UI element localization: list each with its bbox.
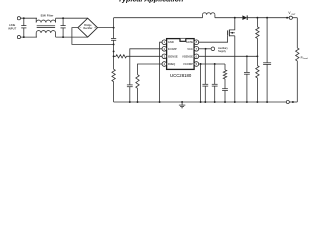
svg-text:Load: Load [303,58,307,60]
capacitor C2 (X-cap after EMI filter) [61,18,66,37]
wire: riser to boost rail [113,18,115,28]
svg-text:Rectifier: Rectifier [83,27,92,30]
node: C7 at rail [224,101,226,103]
wire GND pin to ground rail [160,42,162,102]
capacitor C8 (VSENSE filter) [244,56,250,102]
node: C8 at rail [246,101,248,103]
node: C5 at rail [204,101,206,103]
resistor R2 (ISENSE series) [116,55,127,58]
wire: load to return rail [296,61,298,102]
capacitor C9 (bulk output) [263,18,271,102]
wire: VCOMP left branch to rail [200,64,202,102]
wire: shunt to rail [113,82,115,102]
node: R6 at rail [256,101,258,103]
wire: diode to output node [247,17,289,19]
terminal: auxiliary supply [211,47,215,51]
wire: bottom AC to bridge [56,36,88,38]
wire ISENSE pin to R2 [127,55,163,57]
ground symbol [179,101,185,108]
terminal: line input bottom [17,36,20,39]
svg-text:Typical Application: Typical Application [118,0,184,4]
resistor R3 (FREQ) [136,75,139,89]
terminal: VOUT [289,16,292,19]
node: R3 at rail [137,101,139,103]
svg-text:+: + [94,26,96,30]
wire: return rail right end [289,101,297,103]
wire: top AC to bridge [56,17,88,19]
U1 pins and pin labels [162,40,199,66]
label Rload [301,55,308,60]
node: C9 at rail [266,101,268,103]
wire: bridge positive output [98,27,114,29]
capacitor C5 (VCC decoupling) [202,49,208,102]
wire: AC bottom lead [21,36,38,38]
node: X-cap C1 bottom junction [23,36,25,38]
wire VCC pin to auxiliary supply [199,48,211,50]
label LINE INPUT [8,23,17,30]
wire ICOMP pin to C4 [130,49,162,85]
capacitor C6 (VCOMP parallel) [212,64,218,102]
bridge rectifier BR1 (diamond) [78,18,98,37]
choke core lines [37,26,55,28]
node: return junction [292,101,294,103]
wire VSENSE pin to divider [199,55,258,57]
svg-text:ISENSE: ISENSE [168,54,178,58]
node: MOSFET source at rail [234,101,236,103]
node: sense node at R2 tap [113,55,115,57]
op-amp / controller U1 UCC28180 body [167,39,195,70]
capacitor C3 (post-bridge filter) [111,28,116,45]
node: bridge positive junction [113,27,115,29]
resistor R6 (feedback lower) [256,56,259,102]
svg-text:−: − [80,26,82,30]
wire: MOSFET source to ground rail [234,36,236,102]
node: C4 at rail [129,101,131,103]
wire R2 to sense node [114,55,116,57]
node: bulk capacitor top junction [266,17,268,19]
wire R3 to rail [137,88,139,102]
svg-text:INPUT: INPUT [8,27,17,31]
resistor R1 (current shunt) [112,69,115,81]
node: VCOMP mid junction [214,63,216,65]
label Auxiliary Supply [218,46,229,53]
resistor R5 (feedback upper) [256,18,259,57]
wire: boost rail to inductor [114,17,203,19]
capacitor C1 (X-cap before EMI filter) [21,18,26,37]
wire FREQ pin to R3 [138,64,163,75]
node: X-cap C2 bottom junction [62,36,64,38]
svg-text:EMI Filter: EMI Filter [41,14,54,18]
wire: sense node column [113,44,115,69]
wire: bridge negative return [72,28,114,45]
svg-text:VSENSE: VSENSE [182,54,193,58]
svg-text:VCC: VCC [187,47,193,51]
svg-text:ICOMP: ICOMP [168,47,177,51]
node: C6 at rail [214,101,216,103]
node: VCOMP left branch at rail [200,101,202,103]
svg-text:FREQ: FREQ [168,62,175,66]
inductor L1b (common-mode choke bottom winding) [36,31,55,38]
wire: GATE pin to MOSFET gate [199,35,228,42]
node: return junction at C3 bottom [113,43,115,45]
node: VSENSE divider junction [256,55,258,57]
svg-text:GND: GND [168,40,174,44]
node: X-cap C2 top junction [62,17,64,19]
inductor L1a (common-mode choke top winding) [36,18,55,22]
capacitor C4 (ICOMP) [127,85,133,102]
wire: Vout to load column [292,18,297,48]
wire: ground return rail [114,101,287,103]
capacitor C7 (VCOMP series) [222,79,228,102]
node: VSENSE filter cap tap [246,55,248,57]
svg-text:UCC28180: UCC28180 [170,73,192,78]
svg-text:OUT: OUT [291,14,296,16]
diode D1 (boost diode) [242,15,247,20]
node: Vout junction [286,17,288,19]
wire: inductor to diode [215,17,243,19]
node: MOSFET drain junction [234,17,236,19]
label UCC28180 [170,73,192,78]
node: feedback divider top junction [256,17,258,19]
label EMI Filter [41,14,54,18]
svg-text:VCOMP: VCOMP [183,62,193,66]
inductor L2 (boost inductor) [203,13,215,18]
title (clipped at top edge): Typical Application [118,0,184,4]
node: X-cap C1 top junction [23,17,25,19]
node: sense node upper [113,50,115,52]
wire VCOMP pin network [199,63,225,65]
node: VCOMP junction near pin [200,63,202,65]
node: VCC junction [205,48,207,50]
resistor R4 (VCOMP series) [223,64,226,79]
svg-text:GATE: GATE [186,40,193,44]
terminal: line input top [17,17,20,20]
svg-text:Supply: Supply [218,49,227,53]
node: GND at rail [159,101,161,103]
terminal: output return [286,100,289,103]
label VOUT [288,11,296,16]
transistor Q1 (boost MOSFET) [228,18,235,37]
resistor R7 (load) [296,48,299,61]
wire: AC top lead [21,17,38,19]
